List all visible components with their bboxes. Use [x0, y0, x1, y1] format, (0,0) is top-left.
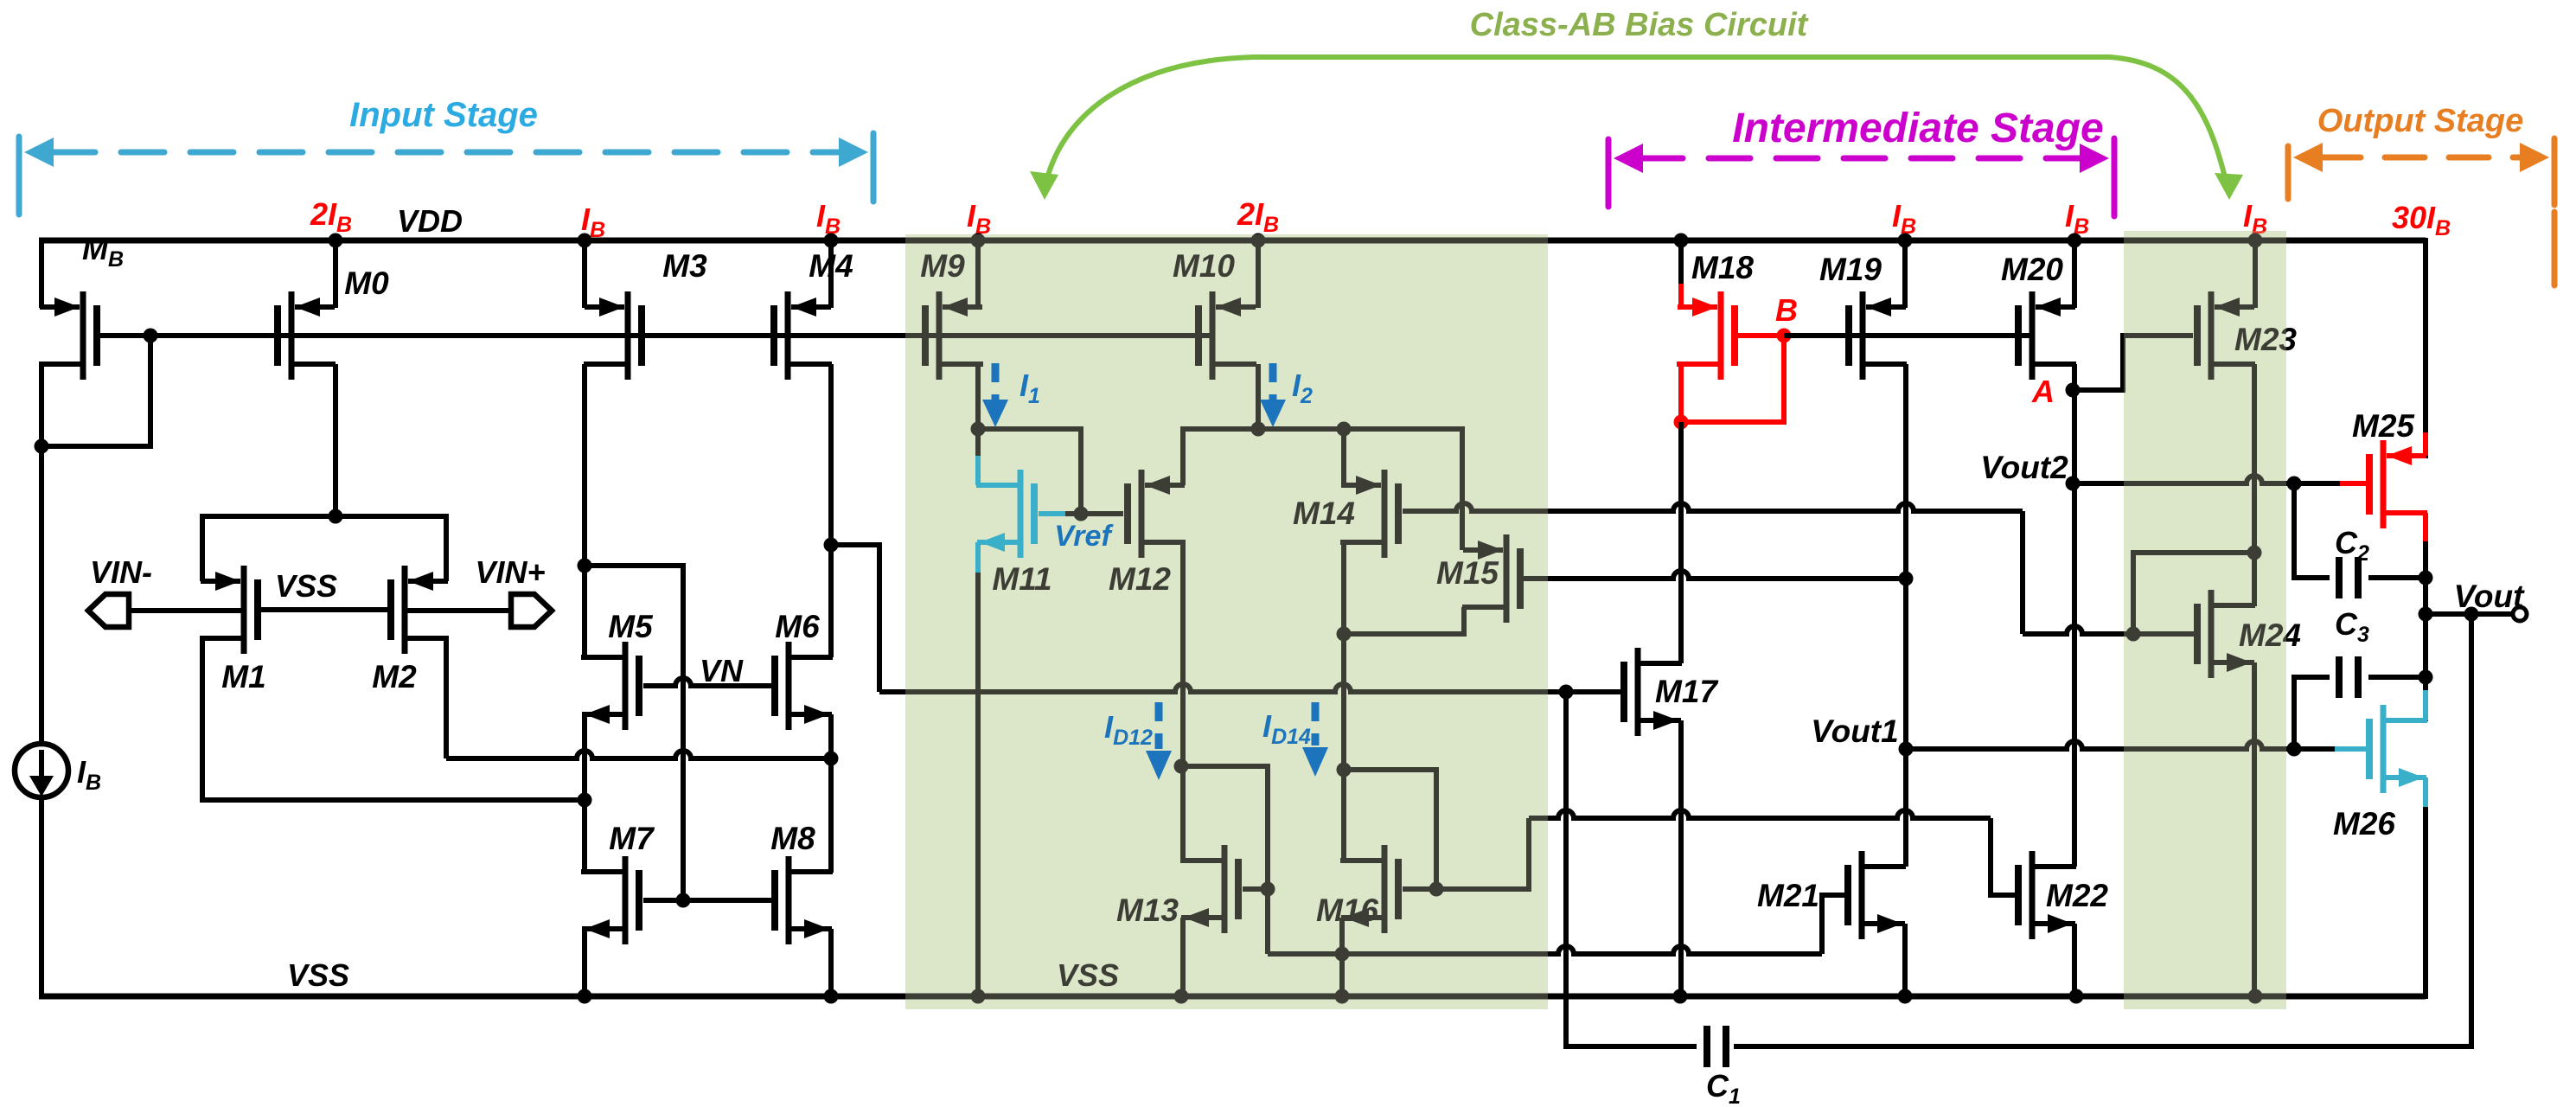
- L1 hop M18 drain: [0, 0, 1, 1]
- input stage dashed span arrow: [19, 133, 873, 214]
- M24 label: [2239, 617, 2301, 653]
- M6 source wire: [828, 714, 834, 873]
- transistor M10: [1199, 291, 1256, 380]
- svg-text:IB: IB: [816, 198, 841, 239]
- node A wire to M23 gate: [2073, 336, 2193, 390]
- MB gate junction dot: [144, 329, 158, 343]
- Intermediate Stage title: [1732, 106, 2103, 151]
- M23 drain loop dot: [2247, 546, 2262, 560]
- M24 source wire: [2252, 662, 2257, 996]
- svg-text:M7: M7: [609, 821, 655, 856]
- svg-text:M21: M21: [1757, 878, 1819, 913]
- M18 drain lead red: [1681, 362, 1723, 367]
- M25 drain red wire: [2423, 513, 2428, 543]
- Output Stage title: [2317, 103, 2524, 139]
- svg-text:2IB: 2IB: [310, 196, 352, 237]
- MB diode junction dot: [35, 439, 49, 454]
- output stage dashed span arrow: [2288, 138, 2554, 285]
- I2 distribution wire: [1258, 429, 1462, 550]
- I2 current arrow: [1260, 363, 1286, 427]
- M18 source wire: [1678, 240, 1684, 308]
- M17 source rail dot: [1673, 989, 1688, 1004]
- svg-text:VDD: VDD: [397, 203, 463, 239]
- M11 drain wire: [975, 429, 981, 458]
- M17 source chain hop: [0, 0, 1, 1]
- I2 label: [1292, 368, 1313, 408]
- label 2IB over M0: [310, 196, 352, 237]
- L3 dot at C1 tap: [1559, 685, 1574, 700]
- tail junction dot: [329, 509, 343, 524]
- class-AB curved arrow: [1030, 57, 2243, 200]
- transistor M13: [1180, 845, 1238, 933]
- current source IB: [15, 744, 68, 797]
- MB diode connection: [42, 336, 150, 446]
- C3 left dot: [2287, 742, 2302, 757]
- M16 drain wire: [1341, 770, 1346, 861]
- capacitor C2: [2339, 557, 2358, 598]
- M17 label: [1655, 674, 1719, 709]
- svg-text:M8: M8: [770, 821, 815, 856]
- M19 source wire: [1902, 240, 1908, 308]
- MB label: [82, 231, 124, 272]
- VSS rail: [39, 994, 2426, 1000]
- svg-text:IB: IB: [967, 198, 991, 239]
- C1 feedback wire: [1566, 614, 2471, 1046]
- transistor M19: [1849, 291, 1907, 380]
- svg-text:Intermediate Stage: Intermediate Stage: [1732, 106, 2103, 151]
- VIN- port: [88, 594, 129, 627]
- M13 label: [1116, 893, 1179, 928]
- L1 class-AB gate wire: [1403, 503, 2195, 634]
- Vout wire: [2426, 611, 2512, 617]
- svg-text:M25: M25: [2352, 408, 2415, 444]
- Vout1 label: [1811, 713, 1898, 749]
- transistor M6: [775, 642, 833, 730]
- C1 label: [1706, 1068, 1741, 1107]
- wire IB to VSS: [39, 796, 44, 999]
- svg-text:Vout2: Vout2: [1980, 450, 2068, 485]
- Vout1 wire: [1906, 741, 2294, 749]
- M16 gate node dot: [1429, 882, 1444, 897]
- svg-text:M2: M2: [372, 659, 417, 694]
- M11 label: [992, 561, 1051, 597]
- transistor M15: [1462, 534, 1520, 623]
- VN vertical crossing: [0, 0, 1, 1]
- svg-text:B: B: [1775, 292, 1798, 328]
- intermediate stage dashed span arrow: [1608, 138, 2114, 216]
- Vout terminal: [2513, 607, 2527, 621]
- svg-text:Vout: Vout: [2454, 579, 2526, 614]
- M18 gate lead: [1738, 333, 1784, 338]
- M20 source wire: [2072, 240, 2077, 308]
- M14 label: [1293, 496, 1355, 531]
- svg-text:Vref: Vref: [1054, 520, 1114, 553]
- VIN+ port: [511, 594, 552, 627]
- svg-text:Output Stage: Output Stage: [2317, 103, 2524, 139]
- label IB over M19: [2065, 198, 2089, 239]
- VIN- label: [90, 554, 152, 590]
- transistor M0: [278, 291, 336, 380]
- svg-text:C3: C3: [2335, 606, 2369, 647]
- Input Stage title: [349, 96, 538, 134]
- label IB over M23: [2243, 198, 2267, 239]
- M25 label: [2352, 408, 2415, 444]
- Vref label: [1054, 520, 1114, 553]
- VDD label: [397, 203, 463, 239]
- svg-text:Class-AB Bias Circuit: Class-AB Bias Circuit: [1470, 7, 1809, 43]
- M8 source wire: [828, 929, 834, 996]
- svg-text:IB: IB: [2065, 198, 2089, 239]
- label IB over M18: [1892, 198, 1916, 239]
- VIN+ wire: [407, 608, 511, 613]
- M9 drain wire: [975, 364, 981, 429]
- M10 source wire: [1256, 240, 1261, 308]
- ID12 label: [1104, 709, 1153, 750]
- C2 label: [2335, 525, 2369, 566]
- M13 source rail dot: [1174, 989, 1189, 1004]
- VN bias wire: [585, 566, 683, 900]
- svg-text:M3: M3: [662, 248, 707, 284]
- M1 drain node dot: [578, 793, 592, 808]
- transistor M5: [581, 642, 639, 730]
- M0 source wire: [333, 240, 338, 308]
- I1 current arrow: [982, 363, 1008, 427]
- M22 source rail dot: [2069, 989, 2084, 1004]
- 30IB feed wire: [2423, 238, 2428, 458]
- green tint overlay region 2: [2124, 231, 2286, 1009]
- VDD rail junction dot M4: [824, 234, 839, 248]
- M15 drain wire: [1344, 607, 1464, 634]
- ID14 label: [1262, 708, 1311, 749]
- M26 gate cyan lead: [2335, 746, 2367, 752]
- C3 wire: [2294, 677, 2426, 749]
- M13 gate chain dot: [1261, 882, 1275, 897]
- transistor M17: [1624, 648, 1682, 736]
- transistor MB: [39, 291, 97, 380]
- label IB over M4: [816, 198, 841, 239]
- svg-text:M22: M22: [2046, 878, 2108, 913]
- M1 M2 gate bus VSS: [261, 607, 387, 612]
- M5 source wire joint: [0, 0, 1, 1]
- svg-text:IB: IB: [77, 754, 101, 795]
- svg-text:M6: M6: [775, 609, 820, 644]
- VDD rail junction dot M23: [2248, 234, 2263, 248]
- green tint overlay region 1: [905, 234, 1548, 1009]
- VDD rail junction dot M19: [1898, 234, 1913, 248]
- Vref wire: [978, 429, 1123, 514]
- M10 label: [1173, 248, 1235, 284]
- capacitor C3: [2339, 656, 2358, 698]
- M20 label: [2001, 252, 2063, 287]
- L2 dot M19 drain: [1899, 572, 1914, 586]
- svg-text:VSS: VSS: [287, 957, 349, 993]
- M21 gate chain wire: [1268, 895, 1844, 954]
- M19 label: [1819, 252, 1882, 287]
- VDD rail: [39, 238, 2426, 308]
- M23 drain wire: [2252, 364, 2257, 606]
- M21 source rail dot: [1898, 989, 1913, 1004]
- L1 hop M19 drain: [0, 0, 1, 1]
- ID14 current arrow: [1302, 702, 1328, 777]
- M10 drain wire: [1256, 364, 1261, 429]
- M16 label: [1316, 893, 1378, 928]
- M16 source wire: [1339, 918, 1345, 996]
- M21 source wire: [1902, 924, 1908, 996]
- Vout node dot: [2419, 607, 2433, 622]
- svg-text:MB: MB: [82, 231, 124, 272]
- M11 drain cyan lead: [978, 456, 981, 485]
- M22 label: [2046, 878, 2108, 913]
- VDD rail junction dot M10: [1251, 234, 1266, 248]
- svg-text:VN: VN: [700, 653, 744, 688]
- C2 right dot: [2419, 571, 2433, 585]
- M25 red feed: [2423, 432, 2428, 456]
- transistor M26: [2369, 705, 2427, 793]
- M9 label: [920, 248, 965, 284]
- I1 node dot: [971, 422, 986, 437]
- M8 label: [770, 821, 815, 856]
- M23 source wire: [2253, 240, 2258, 308]
- svg-text:IB: IB: [1892, 198, 1916, 239]
- M23 drain loop: [2133, 553, 2254, 634]
- M11 gate black lead: [1064, 511, 1081, 516]
- M18 diode loop: [1681, 336, 1784, 422]
- M18 label: [1691, 250, 1754, 285]
- svg-text:VIN+: VIN+: [475, 554, 545, 590]
- M5 label: [608, 609, 654, 644]
- M4 label: [809, 248, 853, 284]
- M7 source wire: [582, 929, 587, 996]
- transistor M25: [2369, 440, 2427, 528]
- Vout2 wire: [2073, 476, 2294, 483]
- ID12 node dot: [1174, 759, 1189, 774]
- M16 gate lead: [1403, 886, 1436, 892]
- L3 hop at M14 drain: [0, 0, 1, 1]
- transistor M1: [200, 566, 258, 654]
- M22 source wire: [2072, 924, 2077, 996]
- stage1 output wire: [831, 545, 1620, 692]
- L2 hop M18 drain: [0, 0, 1, 1]
- VDD rail junction dot M20: [2068, 234, 2082, 248]
- B gate bus: [1784, 333, 2032, 338]
- M9 source wire: [975, 240, 981, 308]
- VN hop joint: [0, 0, 1, 1]
- svg-text:2IB: 2IB: [1237, 196, 1279, 237]
- VDD rail junction dot M0: [329, 234, 343, 248]
- svg-text:M5: M5: [608, 609, 654, 644]
- M14 drain wire: [1341, 542, 1346, 770]
- M11 source wire: [975, 571, 981, 996]
- I1 label: [1020, 368, 1040, 408]
- transistor M11: [976, 470, 1034, 558]
- M0 drain wire: [333, 364, 338, 516]
- label IB over M3: [581, 202, 605, 242]
- IB source label: [77, 754, 101, 795]
- svg-text:C1: C1: [1706, 1068, 1741, 1107]
- M13 source wire: [1180, 918, 1186, 996]
- M5 drain wire: [582, 566, 587, 657]
- M3 drain wire: [582, 364, 587, 566]
- M2 drain wire: [446, 638, 831, 758]
- VSS label mid: [1057, 957, 1119, 993]
- label IB over M9: [967, 198, 991, 239]
- svg-text:M17: M17: [1655, 674, 1719, 709]
- M18 drain node dot: [1674, 415, 1689, 430]
- M26 source wire: [2423, 777, 2428, 999]
- M25 drain wire: [2423, 541, 2428, 721]
- M3 drain node dot: [578, 559, 592, 573]
- M0 label: [344, 266, 389, 301]
- MB gate to M0 gate bus: [97, 333, 1212, 338]
- Vout2 label: [1980, 450, 2068, 485]
- M6 source node dot: [824, 752, 839, 766]
- M7 source rail dot: [578, 989, 592, 1004]
- node B dot: [1777, 329, 1792, 343]
- ID12 current arrow: [1146, 702, 1172, 780]
- M21 label: [1757, 878, 1819, 913]
- class-AB bias shaded region 2: [2124, 231, 2286, 1009]
- M23 label: [2234, 322, 2297, 357]
- M16 diode wire: [1344, 770, 1436, 889]
- node A dot: [2066, 383, 2081, 398]
- L1 hop M15 source: [0, 0, 1, 1]
- M11 source cyan lead: [975, 542, 981, 573]
- svg-text:M0: M0: [344, 266, 389, 301]
- M26 gate lead: [2294, 746, 2336, 752]
- M3 label: [662, 248, 707, 284]
- transistor M9: [925, 291, 983, 380]
- Vout feedback dot: [2464, 607, 2479, 622]
- M18 drain wire down: [1678, 422, 1684, 663]
- svg-text:M20: M20: [2001, 252, 2063, 287]
- Vref node dot: [1074, 507, 1089, 522]
- svg-text:Vout1: Vout1: [1811, 713, 1898, 749]
- node A label: [2031, 374, 2055, 409]
- M26 drain wire: [2423, 677, 2428, 720]
- M12 label: [1109, 561, 1171, 597]
- svg-text:M26: M26: [2333, 806, 2395, 841]
- L2 class-AB gate wire: [1524, 571, 1906, 579]
- transistor M23: [2197, 291, 2255, 380]
- M14 drain node dot: [1337, 627, 1352, 642]
- transistor M21: [1848, 851, 1906, 939]
- M4 drain wire: [828, 364, 834, 657]
- M7 M8 gate bus dot: [676, 893, 691, 908]
- tail rail: [202, 516, 446, 581]
- transistor M22: [2018, 851, 2076, 939]
- M7 label: [609, 821, 655, 856]
- svg-text:VSS: VSS: [275, 568, 337, 604]
- svg-text:C2: C2: [2335, 525, 2369, 566]
- M11 source rail dot: [971, 989, 986, 1004]
- transistor M7: [581, 856, 639, 944]
- M8 source rail dot: [824, 989, 839, 1004]
- svg-text:VIN-: VIN-: [90, 554, 152, 590]
- C2 wire: [2294, 483, 2426, 578]
- VDD rail junction dot M9: [971, 234, 986, 248]
- transistor M2: [391, 566, 449, 654]
- M14 source wire: [1341, 429, 1346, 485]
- left bias wire MB drain to IB source: [39, 364, 44, 745]
- label 2IB over M10: [1237, 196, 1279, 237]
- M16 source chain dot: [1335, 947, 1350, 962]
- C3 right dot: [2419, 670, 2433, 685]
- transistor M8: [775, 856, 833, 944]
- svg-text:M19: M19: [1819, 252, 1882, 287]
- M13 gate chain wire: [1181, 766, 1268, 954]
- svg-text:A: A: [2031, 374, 2055, 409]
- label 30IB: [2392, 200, 2451, 240]
- M22 gate chain wire: [1436, 810, 2015, 895]
- VDD rail junction dot M18: [1674, 234, 1689, 248]
- M11 gate cyan lead: [1039, 511, 1065, 516]
- M4 drain node dot: [824, 538, 839, 553]
- transistor M18: [1677, 291, 1735, 380]
- class-AB bias shaded region 1: [905, 234, 1548, 1009]
- transistor M24: [2197, 590, 2255, 678]
- VN label: [700, 653, 744, 688]
- VIN+ label: [475, 554, 545, 590]
- Class-AB Bias Circuit title: [1470, 7, 1809, 43]
- M2 label: [372, 659, 417, 694]
- M5 source wire: [582, 714, 587, 873]
- M17 source wire: [1678, 720, 1684, 996]
- VSS label left: [287, 957, 349, 993]
- M4 source wire: [828, 240, 834, 308]
- M16 drain node dot: [1337, 763, 1352, 777]
- transistor M12: [1128, 470, 1186, 558]
- M20 drain wire: [2072, 364, 2077, 867]
- M12 drain wire: [1180, 542, 1186, 861]
- M1 drain wire: [202, 638, 585, 800]
- M25 gate wire: [2287, 477, 2368, 491]
- capacitor C1: [1707, 1026, 1726, 1067]
- M1 label: [221, 659, 265, 694]
- VIN- wire: [129, 608, 241, 613]
- transistor M4: [774, 291, 832, 380]
- transistor M20: [2018, 291, 2076, 380]
- I2 node dot: [1251, 422, 1266, 437]
- VDD rail junction dot M3: [578, 234, 592, 248]
- M13 drain wire: [1180, 766, 1186, 861]
- VSS gate label: [275, 568, 337, 604]
- svg-text:30IB: 30IB: [2392, 200, 2451, 240]
- M12 source wire: [1183, 429, 1258, 485]
- M3 source wire: [582, 240, 587, 308]
- M14 source tap dot: [1337, 422, 1352, 437]
- Vout label: [2454, 579, 2526, 614]
- svg-text:M18: M18: [1691, 250, 1754, 285]
- M16 source rail dot: [1335, 989, 1350, 1004]
- transistor M3: [584, 291, 642, 380]
- Vout2 node dot: [2066, 477, 2081, 491]
- Vout1 node dot: [1899, 742, 1914, 757]
- svg-text:M1: M1: [221, 659, 265, 694]
- node B label: [1775, 292, 1798, 328]
- M13 gate lead: [1243, 886, 1268, 892]
- M24 source rail dot: [2248, 989, 2263, 1004]
- M26 label: [2333, 806, 2395, 841]
- L1 dot M24 gate: [2126, 627, 2141, 642]
- M15 label: [1436, 555, 1499, 591]
- M6 label: [775, 609, 820, 644]
- C3 label: [2335, 606, 2369, 647]
- svg-text:Input Stage: Input Stage: [349, 96, 538, 134]
- M19 drain wire: [1903, 364, 1908, 867]
- transistor M14: [1340, 470, 1398, 558]
- VN bus: [643, 678, 775, 686]
- transistor M16: [1340, 845, 1398, 933]
